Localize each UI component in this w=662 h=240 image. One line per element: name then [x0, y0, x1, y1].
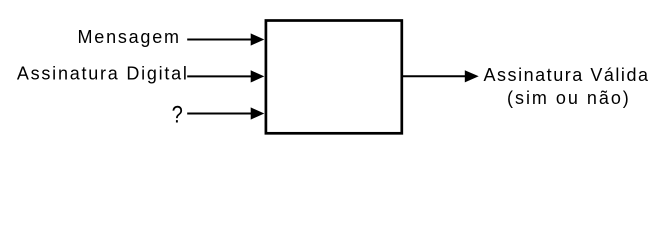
- svg-text:?: ?: [172, 101, 183, 128]
- svg-text:Assinatura Válida: Assinatura Válida: [484, 65, 649, 85]
- svg-text:Assinatura Digital: Assinatura Digital: [17, 64, 187, 84]
- svg-text:(sim ou não): (sim ou não): [507, 88, 629, 108]
